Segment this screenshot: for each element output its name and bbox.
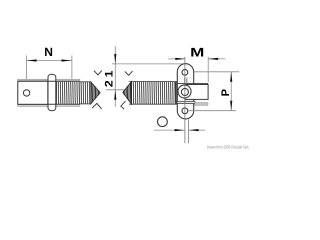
dimension M arrow right — [208, 58, 218, 60]
left latch body box — [18, 81, 48, 104]
svg-text:21: 21 — [103, 68, 115, 88]
break cone right — [123, 82, 132, 105]
spring end wire above tab left — [184, 78, 186, 84]
spring left hatching — [56, 82, 89, 104]
flange line above tab — [177, 82, 208, 84]
sleeve wall fill top — [18, 80, 80, 81]
svg-text:P: P — [220, 89, 232, 96]
hole detail circle — [158, 117, 168, 127]
top hole — [182, 69, 188, 75]
svg-text:Drawn from 2009 Osculati SpA: Drawn from 2009 Osculati SpA — [207, 145, 249, 150]
dimension N extension line left — [26, 56, 28, 90]
bottom hole — [182, 108, 188, 114]
body mounting hole — [23, 90, 29, 96]
spring right hatching — [131, 82, 174, 105]
svg-text:N: N — [44, 45, 53, 59]
dimension N line — [26, 60, 72, 62]
plate centerline — [184, 57, 186, 143]
spring left bottom edge — [80, 103, 91, 105]
dimension M line right — [208, 58, 225, 60]
break chevron right bottom — [121, 101, 126, 109]
spring eye outer circle — [178, 85, 191, 98]
plate thickness arrow right — [189, 129, 199, 131]
plate thickness extension line — [187, 119, 189, 143]
dimension N arrow left — [27, 59, 37, 61]
spring right bottom edge — [129, 103, 177, 105]
dimension P arrow bottom — [230, 101, 232, 111]
dimension M extension line right — [207, 57, 209, 83]
break chevron left bottom — [92, 103, 101, 109]
bracket plate — [177, 64, 193, 119]
break chevron right top — [125, 71, 133, 75]
dimension N extension line right — [71, 56, 73, 80]
flange below tab gray strip — [195, 103, 208, 106]
plate thickness dimension line left — [154, 129, 185, 131]
spring left top edge — [80, 81, 91, 83]
dimension 21 arrow bottom — [114, 90, 116, 100]
dimension 21 bottom extension line — [106, 89, 127, 91]
sleeve outer tube — [18, 79, 80, 106]
spring end wire above tab right — [186, 78, 188, 84]
dimension P top extension line — [194, 71, 239, 73]
dimension N arrow right — [62, 59, 72, 61]
spring right end coil — [175, 82, 177, 105]
flange below tab dark band — [177, 101, 195, 103]
spring right top edge — [129, 81, 177, 83]
dimension 21 arrow top — [114, 54, 116, 64]
dimension P bottom extension line — [188, 110, 236, 112]
dimension 21 vertical line — [114, 46, 116, 106]
dimension M arrow left — [175, 58, 185, 60]
svg-text:M: M — [190, 45, 204, 59]
sleeve inner wall bottom — [18, 103, 80, 105]
spring follower collar — [48, 74, 56, 110]
break cone left — [91, 82, 100, 104]
dimension P arrow top — [230, 72, 232, 82]
break chevron left top — [94, 70, 102, 75]
dimension M line left — [168, 58, 185, 60]
plate thickness arrow left — [175, 129, 185, 131]
sleeve wall fill bottom — [18, 105, 80, 106]
middle hole — [181, 88, 188, 95]
dimension P line — [230, 72, 232, 111]
latch tab — [185, 85, 208, 100]
dimension 21 top extension line — [112, 63, 185, 65]
sleeve inner wall top — [18, 80, 80, 82]
plate thickness dimension line right — [189, 129, 206, 131]
